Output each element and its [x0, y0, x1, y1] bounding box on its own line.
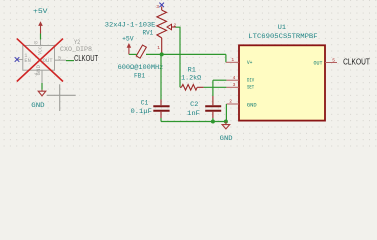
- svg-text:5: 5: [332, 58, 335, 64]
- svg-text:+5V: +5V: [33, 8, 48, 15]
- svg-text:32x4J-1-103E: 32x4J-1-103E: [105, 22, 156, 29]
- wire rail elbow down to U1 V+: [225, 54, 227, 62]
- svg-text:4: 4: [233, 75, 236, 81]
- svg-text:Vcc: Vcc: [37, 46, 44, 55]
- ferrite bead FB1: [136, 45, 146, 58]
- junction U1 gnd / rail: [224, 120, 228, 124]
- svg-text:C1: C1: [141, 99, 149, 106]
- ground GND (below Y2): [41, 83, 43, 90]
- wire U1 GND pin down: [225, 104, 227, 122]
- svg-text:1.2kΩ: 1.2kΩ: [181, 75, 201, 82]
- grey cross (graphic): [47, 84, 76, 111]
- svg-text:GND: GND: [35, 64, 42, 75]
- junction RV1 bottom on rail: [160, 52, 164, 56]
- svg-text:CLKOUT: CLKOUT: [343, 58, 370, 67]
- svg-text:SET: SET: [247, 85, 255, 91]
- DNP red X over Y2: [17, 39, 63, 82]
- svg-text:5: 5: [58, 55, 61, 61]
- svg-text:1: 1: [231, 57, 234, 63]
- pin 2 GND: [226, 103, 239, 105]
- svg-text:GND: GND: [31, 102, 44, 109]
- wire C1 to gnd rail: [160, 118, 162, 122]
- capacitor C2: [212, 80, 214, 96]
- svg-text:Y2: Y2: [74, 39, 80, 46]
- potentiometer RV1: [157, 7, 176, 55]
- svg-text:3: 3: [233, 82, 236, 88]
- svg-text:U1: U1: [278, 24, 286, 31]
- power symbol +5V (left, for Y2): [38, 21, 43, 33]
- oscillator Y2 CXO_DIP8 (DNP, grey): [17, 40, 66, 83]
- wire +5V to Y2 pin 8: [40, 34, 42, 40]
- svg-text:2: 2: [229, 99, 232, 105]
- svg-text:8: 8: [34, 41, 40, 44]
- svg-text:LTC6905CS5TRMPBF: LTC6905CS5TRMPBF: [248, 33, 317, 40]
- wire C2 to gnd rail: [212, 118, 214, 122]
- wire RV1 wiper down to R1: [176, 27, 181, 87]
- wire FB1 to V+ rail: [146, 53, 226, 55]
- svg-text:FB1: FB1: [134, 73, 145, 80]
- svg-text:+5V: +5V: [122, 36, 134, 43]
- pin 5 OUT: [325, 62, 337, 64]
- junction C2/gnd rail: [211, 120, 215, 124]
- wire C2 top to DIV: [213, 79, 227, 81]
- pin 1 V+: [226, 61, 239, 63]
- no-connect X on pin 1: [15, 57, 20, 62]
- pin 1 (EN, left): [17, 59, 23, 61]
- wire +5V to FB1: [129, 53, 137, 55]
- wire pin5 to label: [66, 60, 74, 62]
- pin 8 (Vcc, top): [40, 40, 42, 46]
- no-connect X on RV1 pin 3: [159, 3, 164, 8]
- svg-text:C2: C2: [190, 101, 198, 108]
- wire R1 to SET: [204, 86, 227, 88]
- pin 4 (GND, bottom): [41, 70, 43, 83]
- IC U1 LTC6905CS5TRMPBF: [239, 45, 325, 120]
- svg-text:DIV: DIV: [247, 78, 255, 84]
- svg-text:1nF: 1nF: [187, 110, 200, 117]
- svg-text:V+: V+: [247, 60, 253, 66]
- power symbol +5V (middle, for FB1): [127, 43, 132, 54]
- pin 3 SET: [226, 86, 239, 88]
- pin 5 (OUT, right): [55, 59, 67, 61]
- svg-text:600Ω@100MHz: 600Ω@100MHz: [118, 64, 164, 71]
- svg-text:CLKOUT: CLKOUT: [74, 54, 98, 63]
- resistor R1: [180, 85, 204, 91]
- pin 4 DIV: [226, 79, 239, 81]
- svg-text:R1: R1: [188, 67, 196, 74]
- svg-text:GND: GND: [220, 135, 233, 142]
- capacitor C1: [160, 54, 162, 99]
- gnd rail wire: [161, 121, 226, 123]
- svg-text:0.1μF: 0.1μF: [131, 108, 152, 115]
- svg-text:EN: EN: [24, 57, 30, 64]
- svg-text:GND: GND: [247, 103, 257, 109]
- svg-text:OUT: OUT: [314, 60, 324, 66]
- svg-text:CXO_DIP8: CXO_DIP8: [60, 46, 92, 53]
- svg-text:RV1: RV1: [143, 30, 154, 37]
- svg-text:3: 3: [156, 4, 159, 10]
- ground GND (right): [222, 122, 230, 129]
- svg-text:1: 1: [157, 45, 160, 51]
